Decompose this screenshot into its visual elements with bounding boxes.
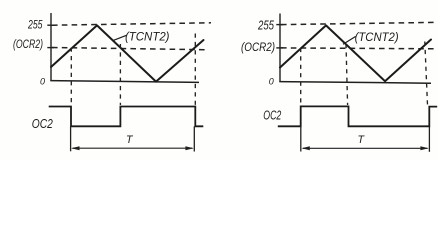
pointer line to TCNT2 wave (right) <box>343 37 356 45</box>
svg-text:(TCNT2): (TCNT2) <box>355 30 399 44</box>
OC2 square wave (left) <box>49 107 204 127</box>
T arrowhead right (right panel) <box>420 146 428 150</box>
T arrowhead left (left panel) <box>71 146 79 150</box>
tick 255 (left) <box>47 24 54 26</box>
svg-text:0: 0 <box>40 76 46 87</box>
T dimension arrow (left) <box>73 147 193 149</box>
tick OCR2 (right) <box>276 47 283 49</box>
svg-text:(OCR2): (OCR2) <box>13 39 43 51</box>
dashed level OCR2 (left) <box>52 48 205 50</box>
T extent line left boundary (left panel) <box>70 126 72 151</box>
svg-text:0: 0 <box>269 76 275 87</box>
svg-text:OC2: OC2 <box>263 108 282 123</box>
T extent line right boundary (right panel) <box>428 126 430 152</box>
x-axis baseline (right) <box>279 82 431 84</box>
dashed vertical at period end (right) <box>425 42 428 106</box>
tick 255 (right) <box>276 24 283 26</box>
dashed vertical at first OCR2 crossing (left) <box>70 48 72 105</box>
dashed vertical at first OCR2 crossing (right) <box>300 48 302 105</box>
T arrowhead left (right panel) <box>302 146 310 150</box>
OC2 square wave (right) <box>278 106 437 126</box>
svg-text:(TCNT2): (TCNT2) <box>125 30 170 44</box>
T dimension arrow (right) <box>303 147 428 149</box>
y-axis (left) <box>50 13 52 81</box>
svg-text:255: 255 <box>257 17 274 32</box>
T arrowhead right (left panel) <box>185 146 193 150</box>
TCNT2 triangle wave (right) <box>280 25 431 81</box>
TCNT2 triangle wave (left) <box>51 25 204 81</box>
dashed level 255 (right) <box>281 22 435 24</box>
dashed vertical at second OCR2 crossing (left) <box>119 44 121 105</box>
y-axis (right) <box>279 14 281 83</box>
tick OCR2 (left) <box>47 47 54 49</box>
x-axis baseline (left) <box>50 81 199 83</box>
svg-text:(OCR2): (OCR2) <box>241 42 275 54</box>
T extent line right boundary (left panel) <box>193 126 195 151</box>
T extent line left boundary (right panel) <box>300 126 302 151</box>
pointer line to TCNT2 wave (left) <box>112 35 126 41</box>
svg-text:OC2: OC2 <box>32 117 53 131</box>
dashed vertical at second OCR2 crossing (right) <box>346 44 348 105</box>
dashed level OCR2 (right) <box>281 47 434 50</box>
dashed level 255 (left) <box>52 23 211 25</box>
dashed vertical at period end (left) <box>194 34 196 106</box>
svg-text:255: 255 <box>27 18 42 32</box>
